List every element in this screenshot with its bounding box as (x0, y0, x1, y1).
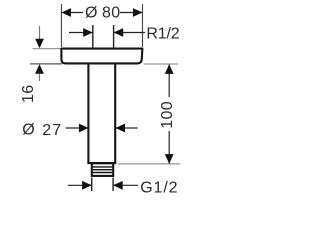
flange (ceiling escutcheon) outline (61, 49, 142, 64)
svg-text:16: 16 (20, 84, 37, 103)
flange bottom extension line right (gray, for 100 dim) (144, 63, 179, 65)
dim 100: upper shaft (168, 65, 170, 98)
dim 16: down arrowhead (tip at ceiling line) (35, 39, 44, 49)
dim Ø80: left shaft (61, 12, 83, 14)
dim Ø27: right arrowhead (points left at pipe wall) (115, 124, 125, 133)
dim Ø80: left extension line (60, 4, 62, 47)
pipe wall left (87, 64, 89, 164)
dim G1/2: left arrowhead (points right at bar) (82, 181, 92, 190)
svg-text:R1/2: R1/2 (146, 26, 179, 43)
dim 16: lower tail (39, 74, 41, 82)
svg-text:Ø: Ø (22, 122, 34, 139)
svg-text:80: 80 (102, 5, 121, 22)
dim Ø27: right shaft (124, 127, 138, 129)
dim R1/2: left shaft (69, 32, 93, 34)
svg-text:Ø: Ø (85, 5, 97, 22)
dim 100: lower shaft (168, 131, 170, 164)
dim Ø80: right shaft (120, 12, 143, 14)
thread line 3 (93, 172, 112, 174)
dim G1/2: left extension bar (91, 178, 93, 192)
pipe bottom step (87, 162, 116, 164)
dim 100: down arrowhead (tip at pipe bottom ext) (165, 154, 174, 164)
dim Ø80: left arrowhead (points left) (61, 8, 71, 17)
dim G1/2: right arrowhead (points left at bar) (113, 181, 123, 190)
threaded end G1/2 block (92, 163, 113, 176)
dim 16: up arrowhead (tip at flange bottom line) (35, 64, 44, 74)
pipe wall right (114, 64, 116, 164)
dim Ø80: right arrowhead (points right) (133, 8, 143, 17)
flange bottom extension line left (black) (30, 63, 62, 65)
dim R1/2: left arrowhead (points right at bar) (83, 28, 93, 37)
ceiling line (gray, left of flange) (33, 48, 66, 50)
dim Ø27: left shaft (66, 127, 81, 129)
svg-text:100: 100 (159, 101, 176, 129)
dim Ø80: right extension line (142, 4, 144, 47)
dim R1/2: right shaft (114, 32, 145, 34)
dim 16: upper tail (39, 26, 41, 39)
dim G1/2: right extension bar (112, 178, 114, 192)
pipe bottom extension line right (gray, for 100 dim) (118, 163, 180, 165)
dim G1/2: left shaft (68, 184, 92, 186)
dim G1/2: right shaft (113, 184, 138, 186)
dim R1/2: right arrowhead (points left at bar) (114, 28, 124, 37)
thread line 2 (93, 169, 112, 171)
thread line 1 (93, 166, 112, 168)
svg-text:27: 27 (42, 122, 62, 139)
dim R1/2: left extension bar (92, 25, 94, 48)
svg-text:G1/2: G1/2 (140, 179, 178, 196)
dim Ø27: left arrowhead (points right at pipe wall) (79, 124, 89, 133)
dim R1/2: right extension bar (113, 25, 115, 48)
dim 100: up arrowhead (tip at flange bottom ext) (165, 64, 174, 74)
